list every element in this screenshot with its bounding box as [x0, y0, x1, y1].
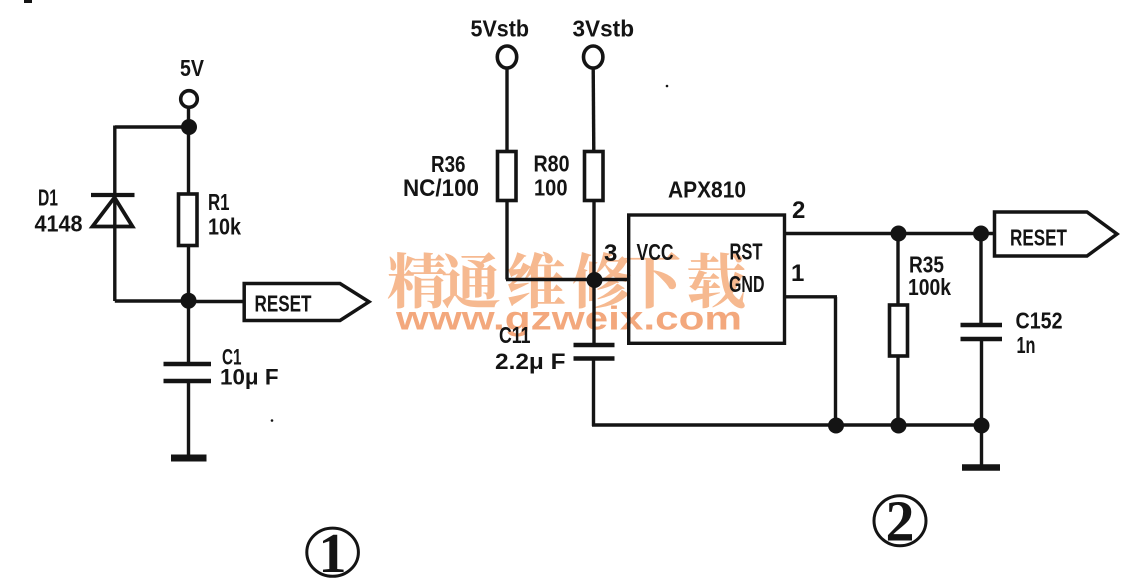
svg-text:2.2μ F: 2.2μ F — [495, 349, 566, 374]
svg-text:R36: R36 — [431, 151, 466, 177]
svg-text:C152: C152 — [1016, 308, 1063, 334]
svg-text:5Vstb: 5Vstb — [471, 16, 530, 42]
svg-text:C11: C11 — [499, 322, 531, 348]
svg-text:3: 3 — [604, 240, 617, 267]
svg-text:10k: 10k — [208, 214, 241, 240]
svg-text:1: 1 — [319, 523, 347, 583]
svg-text:100: 100 — [534, 175, 568, 201]
svg-text:www.gzweix.com: www.gzweix.com — [395, 300, 742, 337]
svg-text:R1: R1 — [208, 189, 230, 215]
svg-text:1: 1 — [791, 260, 804, 287]
svg-text:NC/100: NC/100 — [403, 175, 479, 202]
svg-text:4148: 4148 — [35, 211, 83, 237]
svg-text:RESET: RESET — [1010, 225, 1067, 251]
svg-text:2: 2 — [886, 489, 915, 554]
svg-text:RESET: RESET — [255, 291, 312, 317]
svg-text:3Vstb: 3Vstb — [573, 16, 635, 42]
svg-text:1n: 1n — [1017, 332, 1036, 358]
svg-text:RST: RST — [730, 239, 763, 265]
svg-text:100k: 100k — [908, 274, 951, 300]
svg-text:D1: D1 — [38, 185, 58, 211]
svg-text:2: 2 — [792, 197, 805, 224]
svg-text:VCC: VCC — [637, 239, 674, 265]
svg-text:APX810: APX810 — [668, 177, 746, 203]
svg-text:R80: R80 — [534, 151, 570, 177]
svg-text:10μ F: 10μ F — [220, 365, 279, 390]
svg-text:5V: 5V — [180, 55, 205, 81]
svg-text:GND: GND — [729, 271, 765, 297]
